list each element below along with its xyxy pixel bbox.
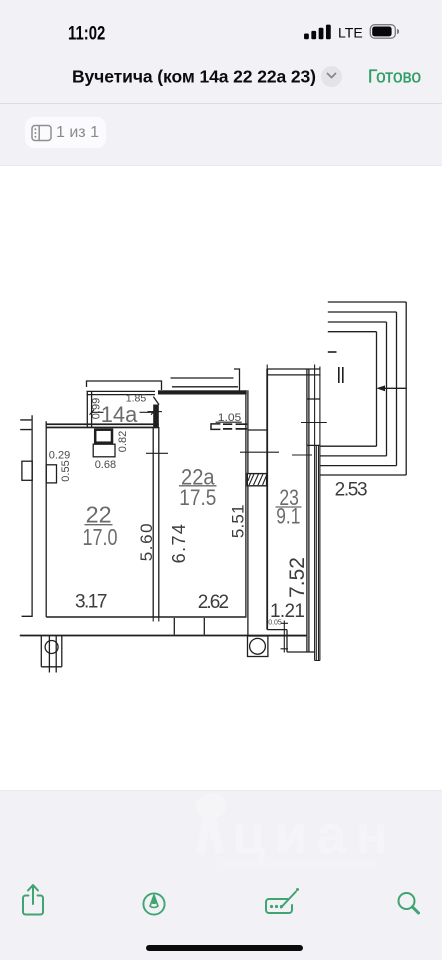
watermark pin logo: [190, 790, 405, 875]
svg-text:6.74: 6.74: [169, 523, 189, 564]
svg-text:0.29: 0.29: [49, 449, 70, 461]
toolbar: search icon: [395, 890, 423, 918]
ticks above room 23 top wall: [267, 365, 314, 370]
chevron button: [321, 66, 342, 87]
thick wall 22 top: [46, 423, 159, 425]
svg-text:2.62: 2.62: [198, 592, 229, 613]
thick wall 14a right: [153, 405, 159, 428]
dashed opening 1.05: [211, 424, 220, 430]
white document page: [0, 166, 442, 790]
svg-text:1.05: 1.05: [218, 412, 242, 424]
room 23 top wall: [267, 369, 321, 375]
room 22 left inner wall: [45, 421, 47, 617]
door boxes bottom: [174, 618, 204, 635]
tick on wall near 14a: [148, 411, 163, 413]
room 22 top wall break ticks: [20, 420, 31, 430]
room 23 right wall: [307, 369, 309, 653]
long tick between 22a and 23: [240, 451, 279, 453]
page pill "1 из 1": [25, 117, 106, 148]
top dim bracket left: [87, 381, 162, 390]
window inner box: [46, 465, 56, 483]
svg-text:17.5: 17.5: [179, 485, 216, 510]
party wall bottom stubs: [153, 617, 159, 622]
status bar right: signal bars: [303, 23, 399, 42]
WC left: [41, 636, 62, 673]
level mark II: [339, 367, 343, 383]
WC right: [248, 636, 268, 657]
arrowhead: [376, 385, 385, 391]
stairwell rect bottoms: [320, 446, 406, 475]
toolbar: markup icon: [142, 892, 166, 916]
divider: [0, 103, 442, 104]
svg-text:0.55: 0.55: [60, 460, 72, 481]
room 23 bottom: [250, 630, 315, 652]
room 22 left outer wall: [22, 415, 33, 616]
room 14a top wall: [87, 391, 156, 394]
dim line 0.05: [281, 621, 289, 653]
room 14a dim line: [90, 410, 156, 415]
title: [0, 60, 442, 92]
door connectors room 23: [307, 399, 320, 445]
toolbar: signature icon: [262, 885, 302, 917]
connector 22a/23 walls: [248, 429, 267, 431]
status bar time: [60, 18, 120, 46]
thick wall 22a top: [158, 390, 247, 394]
svg-text:3.17: 3.17: [75, 591, 108, 612]
room 23 left wall: [266, 369, 268, 630]
home indicator: [146, 945, 303, 951]
window outer box: [22, 461, 32, 480]
svg-text:7.52: 7.52: [286, 557, 309, 598]
toolbar: share icon: [18, 882, 48, 918]
ticks room 23 right: [292, 423, 327, 456]
party wall 22/22a: [153, 427, 159, 617]
svg-text:17.0: 17.0: [83, 524, 118, 550]
svg-text:14а: 14а: [101, 402, 138, 427]
plan labels: [83, 402, 301, 550]
room 22a right wall: [246, 390, 248, 635]
door diagonal 14a/22a: [153, 397, 159, 405]
fraction lines: [85, 486, 302, 525]
stairwell rect rights: [377, 302, 407, 475]
bottom wall inner line: [46, 616, 246, 618]
outer corridor lines: [315, 367, 320, 661]
level mark dash: [328, 351, 337, 353]
svg-text:5.51: 5.51: [229, 504, 248, 538]
svg-text:0.82: 0.82: [117, 431, 129, 452]
top dim bracket right: [171, 369, 240, 391]
tick on party wall: [146, 452, 168, 454]
stairwell rect tops: [328, 302, 406, 332]
done button: [360, 60, 440, 92]
svg-text:1.85: 1.85: [126, 393, 147, 405]
svg-text:2.53: 2.53: [335, 479, 368, 500]
svg-text:циан: циан: [232, 805, 397, 865]
duct below 14a: [95, 430, 112, 443]
svg-text:0.99: 0.99: [91, 398, 103, 419]
svg-text:5.60: 5.60: [137, 522, 156, 562]
bottom wall outer line: [20, 635, 307, 637]
svg-text:0.05: 0.05: [268, 620, 282, 627]
svg-text:0.68: 0.68: [95, 459, 116, 471]
stair direction arrow: [380, 387, 406, 389]
room 14a left wall: [87, 391, 91, 427]
hatched wall block: [247, 474, 266, 486]
